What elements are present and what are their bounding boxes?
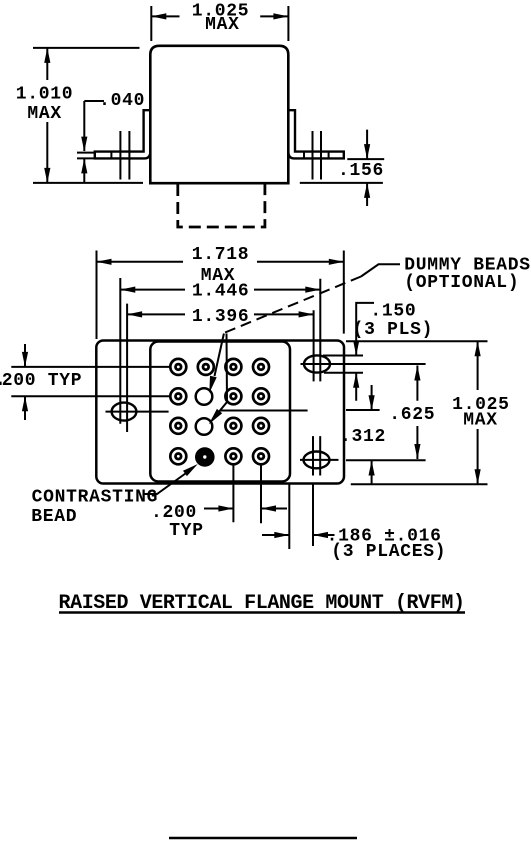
- mounting slot left: [106, 403, 169, 421]
- svg-text:.040: .040: [99, 91, 145, 111]
- left flange leads: [120, 131, 129, 180]
- label DUMMY BEADS OPTIONAL with leader: [209, 255, 531, 424]
- right flange leads: [313, 131, 322, 180]
- svg-text:1.396: 1.396: [192, 307, 250, 327]
- svg-text:BEAD: BEAD: [31, 507, 77, 527]
- page footer line: [169, 837, 357, 839]
- svg-text:.150: .150: [370, 302, 416, 322]
- dimension .186 plusminus .016 3 PLACES: [262, 527, 446, 563]
- dimension .625: [389, 366, 435, 460]
- dimension 1.446: [120, 278, 320, 424]
- svg-text:1.010: 1.010: [16, 85, 74, 105]
- svg-text:1.718: 1.718: [192, 245, 250, 265]
- hidden base outline dashed: [178, 184, 265, 227]
- plate centerline: [220, 409, 380, 412]
- dimension .040: [77, 91, 145, 183]
- dimension 1.025 MAX top: [151, 1, 288, 41]
- bead row reference lines: [11, 367, 169, 396]
- dimension 1.025 MAX right: [346, 341, 510, 484]
- bead grid standard beads: [170, 359, 269, 464]
- dimension 1.396: [127, 304, 314, 432]
- mounting slot bottom right: [300, 436, 426, 475]
- svg-text:.625: .625: [389, 405, 435, 425]
- contrasting bead: [195, 447, 215, 467]
- svg-text:(3 PLS): (3 PLS): [353, 320, 434, 340]
- svg-text:1.446: 1.446: [192, 282, 250, 302]
- dimension 1.718 MAX: [97, 245, 344, 339]
- flange plate outline bottom view: [96, 341, 344, 484]
- svg-text:MAX: MAX: [27, 104, 62, 124]
- mounting slot top right: [301, 355, 426, 372]
- svg-text:(OPTIONAL): (OPTIONAL): [404, 273, 519, 293]
- dimension .200 TYP left: [0, 344, 82, 420]
- title RAISED VERTICAL FLANGE MOUNT RVFM: [59, 592, 466, 615]
- right flange: [288, 110, 344, 158]
- svg-text:MAX: MAX: [205, 15, 240, 35]
- body outline bottom view: [150, 342, 290, 482]
- svg-text:.156: .156: [338, 161, 384, 181]
- svg-text:TYP: TYP: [169, 521, 204, 541]
- dimension .156: [300, 130, 384, 206]
- dummy beads open circles: [196, 388, 213, 435]
- dimension .150 3 PLS: [353, 302, 434, 401]
- bead column extension lines: [233, 464, 313, 549]
- dimension .200 TYP bottom: [151, 503, 287, 541]
- svg-text:.200 TYP: .200 TYP: [0, 371, 82, 391]
- svg-text:(3 PLACES): (3 PLACES): [331, 542, 446, 562]
- dimension .312: [340, 385, 386, 484]
- svg-text:MAX: MAX: [463, 410, 498, 430]
- svg-text:.312: .312: [340, 427, 386, 447]
- package body side view: [150, 46, 288, 183]
- dimension 1.010 MAX left: [16, 48, 143, 183]
- label CONTRASTING BEAD with leader: [31, 464, 198, 527]
- svg-text:CONTRASTING: CONTRASTING: [32, 488, 159, 508]
- left flange: [95, 110, 151, 158]
